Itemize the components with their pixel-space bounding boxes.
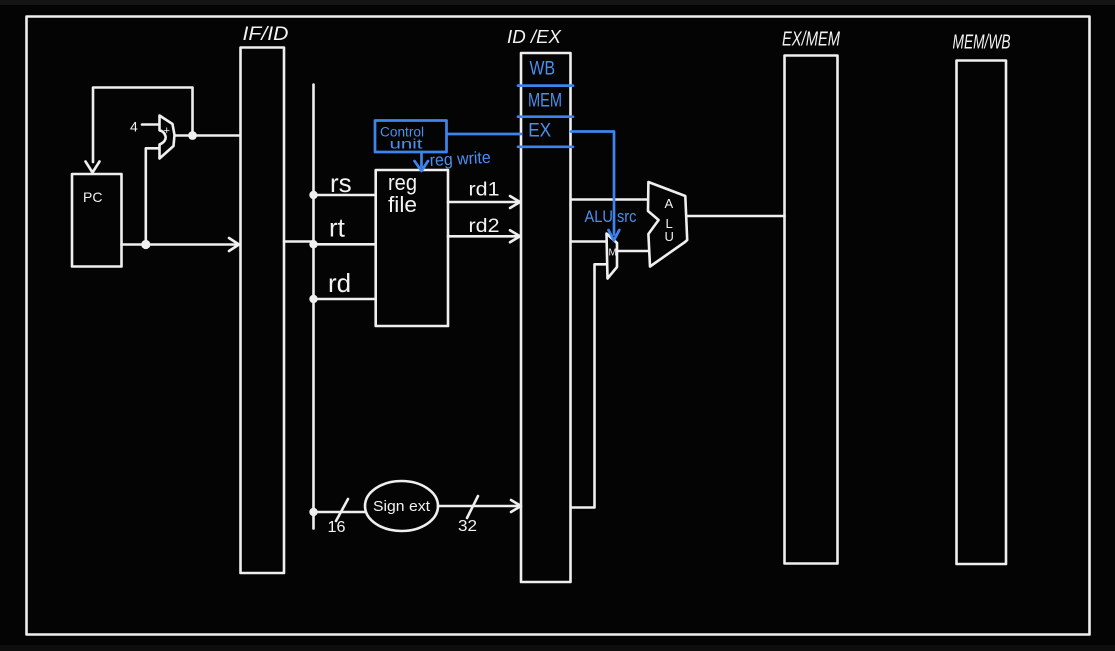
svg-text:4: 4: [130, 118, 138, 134]
sign extend ellipse: [365, 481, 438, 531]
node: rd tap: [309, 295, 317, 303]
wire: control unit to ID/EX EX field: [447, 133, 521, 136]
MEM/WB pipeline register: [957, 61, 1007, 565]
svg-text:U: U: [665, 229, 674, 244]
op-amp style ALU: [648, 182, 687, 267]
wire: rd2 output to ID/EX: [448, 235, 517, 238]
svg-text:WB: WB: [530, 59, 556, 80]
wire: mux output to ALU: [617, 250, 649, 253]
arrowhead rd2: [510, 230, 520, 242]
arrowhead into IF/ID: [229, 238, 239, 251]
svg-text:MEM/WB: MEM/WB: [953, 32, 1011, 54]
wire: rd tap: [314, 298, 376, 301]
wire: instruction bus vertical: [312, 85, 315, 529]
wire: reg write arrow down to register file: [420, 153, 423, 167]
svg-text:rs: rs: [330, 168, 352, 198]
wire: rs tap: [314, 194, 376, 197]
svg-text:EX/MEM: EX/MEM: [782, 29, 840, 51]
wire: ALU output to EX/MEM: [688, 215, 785, 218]
node: PC output junction: [141, 240, 150, 249]
svg-text:ALU src: ALU src: [585, 207, 637, 226]
wire: bus to sign extend: [314, 511, 365, 514]
wire: rt tap: [314, 243, 376, 246]
svg-text:rd2: rd2: [469, 216, 500, 237]
svg-text:IF/ID: IF/ID: [243, 24, 289, 45]
wire: PC value up into adder second input: [146, 148, 159, 244]
wire: feedback loop adder output to PC top: [93, 88, 193, 163]
junction dots: [141, 131, 317, 516]
wire: 4 constant into adder: [142, 123, 159, 126]
svg-text:Sign ext: Sign ext: [373, 498, 431, 515]
node: adder output junction: [188, 131, 197, 140]
ID/EX WB divider: [518, 84, 573, 87]
blue control path: [375, 86, 619, 241]
svg-text:32: 32: [458, 518, 477, 535]
arrowhead into PC: [86, 162, 100, 173]
svg-text:rt: rt: [329, 213, 346, 243]
svg-text:file: file: [388, 192, 417, 217]
EX/MEM pipeline register: [785, 56, 838, 564]
wire: IF/ID to instruction bus: [284, 240, 314, 243]
PC register: [72, 174, 122, 267]
svg-text:unit: unit: [390, 137, 423, 152]
register file: [376, 170, 448, 326]
wire: sign-extended imm from ID/EX to mux: [571, 264, 607, 507]
node: rs tap: [309, 191, 317, 199]
control unit box: [375, 121, 447, 153]
wire: rd1 output to ID/EX: [448, 201, 517, 204]
arrowhead rd1: [510, 196, 520, 208]
svg-text:MEM: MEM: [528, 91, 562, 112]
wire: rd2 from ID/EX to mux: [571, 240, 606, 243]
wire: PC output to IF/ID: [122, 243, 237, 246]
slash 32 bits: [467, 496, 478, 518]
ID/EX pipeline register: [521, 53, 571, 582]
mux M: [607, 234, 618, 279]
ID/EX EX divider: [518, 145, 573, 148]
svg-text:EX: EX: [528, 121, 551, 142]
wire: rd1 from ID/EX to ALU: [571, 198, 648, 201]
node: sign-ext tap: [309, 508, 317, 516]
svg-text:M: M: [609, 248, 617, 259]
slash 16 bits: [336, 499, 348, 521]
wire: EX field to ALU-src mux: [571, 132, 614, 235]
svg-text:16: 16: [328, 519, 346, 536]
wire: adder output to IF/ID: [175, 134, 240, 137]
svg-text:rd: rd: [328, 268, 351, 298]
arrowhead sign ext: [511, 500, 521, 512]
svg-text:PC: PC: [83, 189, 102, 205]
arrowhead ALU src into mux: [609, 230, 620, 241]
node: rt tap: [309, 240, 317, 248]
ID/EX MEM divider: [518, 115, 573, 118]
svg-text:A: A: [665, 196, 674, 211]
adder (PC+4): [160, 116, 175, 159]
blue labels: [380, 59, 637, 227]
svg-text:+: +: [164, 125, 170, 137]
wire: sign extend to ID/EX: [438, 505, 517, 508]
svg-text:ID /EX: ID /EX: [507, 27, 562, 47]
svg-text:rd1: rd1: [469, 180, 500, 201]
svg-text:reg write: reg write: [429, 148, 491, 170]
IF/ID pipeline register: [241, 48, 285, 574]
